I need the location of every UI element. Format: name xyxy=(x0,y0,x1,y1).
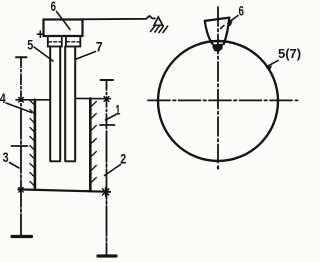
svg-text:5: 5 xyxy=(27,37,33,53)
svg-text:1: 1 xyxy=(115,102,120,118)
svg-text:6: 6 xyxy=(239,3,245,19)
svg-text:6: 6 xyxy=(51,0,57,14)
svg-text:2: 2 xyxy=(120,151,126,167)
svg-text:5(7): 5(7) xyxy=(278,46,301,61)
svg-text:7: 7 xyxy=(96,39,103,55)
svg-text:4: 4 xyxy=(0,90,6,106)
svg-text:3: 3 xyxy=(3,149,9,165)
